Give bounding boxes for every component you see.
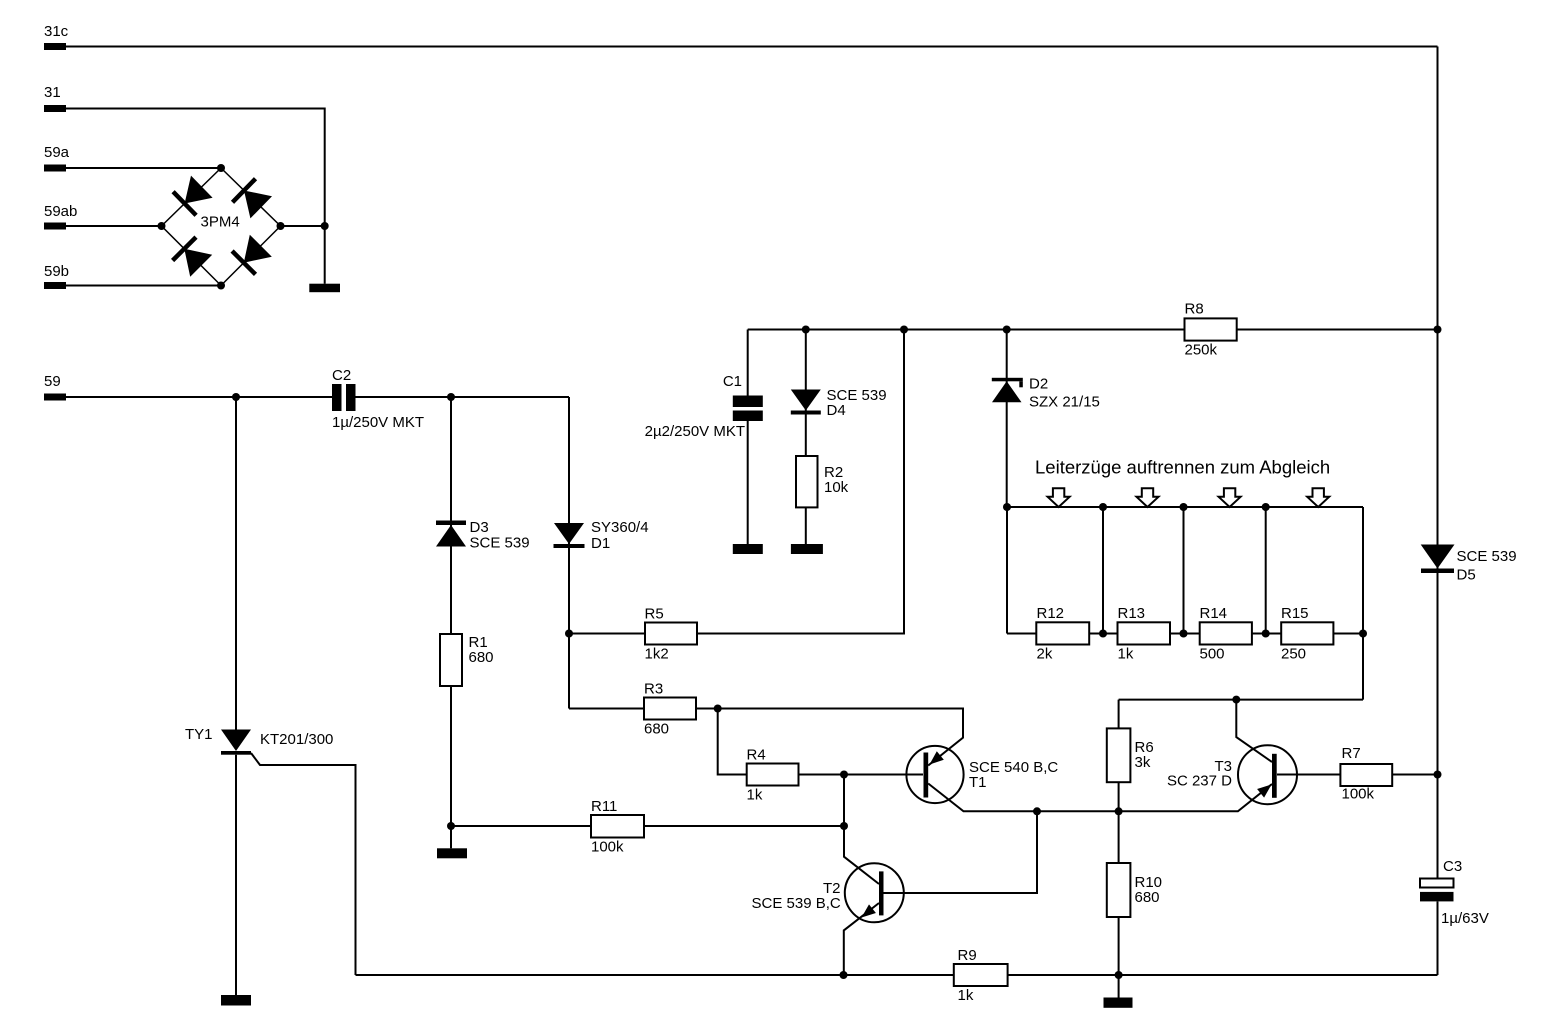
node bridge left (158, 222, 166, 230)
svg-text:R3: R3 (644, 681, 663, 698)
diode D5 (1421, 545, 1455, 574)
resistor R5 (645, 623, 697, 645)
wire R11 horizontal (451, 825, 844, 827)
wire TY1 cathode to ground (235, 755, 237, 995)
ground (R2) (791, 544, 823, 554)
node bridge bottom (217, 282, 225, 290)
wire trim stub 1 (1102, 507, 1104, 634)
wire net 59b to bridge (66, 285, 221, 287)
ground (R1/R11 node) (437, 848, 467, 858)
svg-text:R14: R14 (1200, 605, 1228, 622)
node R11/T2 (840, 822, 848, 830)
node R7/right rail (1434, 771, 1442, 779)
diode D1 (554, 523, 585, 548)
wire bottom net through R9 to C3 (356, 974, 1438, 976)
bridge diode top-left (173, 176, 213, 216)
svg-text:1µ/63V: 1µ/63V (1441, 910, 1489, 927)
svg-text:TY1: TY1 (185, 726, 213, 743)
transistor T3 emitter arrow (1257, 785, 1271, 798)
wire C1 bottom to ground (747, 421, 749, 544)
svg-text:250k: 250k (1185, 342, 1218, 359)
resistor R2 (796, 456, 818, 507)
svg-text:100k: 100k (591, 839, 624, 856)
bridge diode bottom-right (232, 235, 272, 275)
svg-text:D1: D1 (591, 535, 610, 552)
node R15 right (1359, 630, 1367, 638)
svg-text:SZX 21/15: SZX 21/15 (1029, 394, 1100, 411)
svg-text:1k2: 1k2 (645, 646, 669, 663)
wire R4 branch to T1 base (718, 709, 923, 775)
terminal 59a (44, 165, 66, 172)
wire net 59 right of C2 (356, 396, 570, 398)
svg-text:T1: T1 (969, 774, 987, 791)
resistor R7 (1340, 764, 1392, 786)
node D2/top rail (1003, 326, 1011, 334)
node R5 riser/top rail (900, 326, 908, 334)
svg-text:R4: R4 (747, 747, 766, 764)
node T1 collector (1033, 807, 1041, 815)
node R1/R11 (447, 822, 455, 830)
wire trim network right vertical (1362, 507, 1364, 700)
wire net 31 to ground (66, 109, 325, 284)
wire T3 collector riser (1236, 700, 1272, 762)
svg-text:1µ/250V MKT: 1µ/250V MKT (332, 414, 424, 431)
wire right rail (C3 bottom to bottom net) (1437, 902, 1439, 976)
wire trim network left vertical (1006, 507, 1008, 634)
wire R6 R10 vertical branch (1118, 700, 1120, 975)
transistor T1 emitter arrow (930, 751, 944, 764)
svg-text:31c: 31c (44, 23, 69, 40)
svg-text:SC 237 D: SC 237 D (1167, 773, 1232, 790)
svg-text:C2: C2 (332, 367, 351, 384)
wire net 59ab to bridge (66, 225, 162, 227)
svg-text:SCE 539: SCE 539 (1457, 548, 1517, 565)
svg-text:R11: R11 (591, 798, 617, 815)
wire right rail (31c down to C3 top) (1437, 47, 1439, 879)
svg-text:D4: D4 (827, 402, 846, 419)
node R12/R13 (1099, 630, 1107, 638)
svg-text:250: 250 (1281, 646, 1306, 663)
svg-text:C1: C1 (723, 373, 742, 390)
terminal 59ab (44, 223, 66, 230)
wire D2 branch (1006, 330, 1008, 508)
terminal 31 (44, 105, 66, 112)
resistor R9 (954, 964, 1008, 986)
wire trim resistor row R12-R15 (1007, 633, 1363, 635)
wire net 59 left of C2 (66, 396, 332, 398)
svg-text:D3: D3 (470, 519, 489, 536)
ground (bottom net) (1104, 998, 1133, 1008)
terminal 59 (44, 394, 66, 401)
node R8/right rail (1434, 326, 1442, 334)
resistor R3 (644, 698, 696, 720)
node bridge right (277, 222, 285, 230)
svg-text:10k: 10k (824, 479, 849, 496)
resistor R10 (1107, 863, 1131, 917)
node D1/R5 (565, 630, 573, 638)
wire R3 to T1 emitter (569, 709, 963, 766)
capacitor C1 plates (733, 396, 763, 422)
svg-text:2µ2/250V MKT: 2µ2/250V MKT (645, 423, 745, 440)
resistor R4 (747, 764, 799, 786)
svg-text:3PM4: 3PM4 (201, 214, 240, 231)
wire TY1 anode branch (235, 397, 237, 730)
wire R4 node down to T2 collector (844, 775, 879, 885)
wire R5 to top rail riser (569, 330, 904, 634)
svg-text:680: 680 (1135, 889, 1160, 906)
node T2 emitter/bottom (840, 971, 848, 979)
trim cut arrow 3 (1219, 488, 1241, 507)
trim cut arrow 1 (1048, 488, 1070, 507)
trim cut arrow 2 (1137, 488, 1159, 507)
transistor T2 emitter arrow (862, 904, 876, 917)
thyristor TY1 (221, 730, 251, 755)
capacitor C3 top plate (1420, 879, 1454, 888)
svg-text:R13: R13 (1118, 605, 1146, 622)
node R6/R10 (1115, 807, 1123, 815)
node R13/R14 (1180, 630, 1188, 638)
capacitor C3 bottom plate (1420, 892, 1454, 902)
bridge diode bottom-left (173, 237, 213, 277)
wire trim stub 3 (1265, 507, 1267, 634)
svg-text:59a: 59a (44, 144, 70, 161)
ground (net 31 / bridge) (309, 284, 340, 293)
resistor R1 (440, 634, 462, 686)
resistor R11 (591, 815, 644, 838)
resistor R6 (1107, 728, 1131, 782)
svg-text:SY360/4: SY360/4 (591, 519, 649, 536)
wire T2 emitter to bottom net (844, 903, 879, 975)
svg-text:31: 31 (44, 84, 61, 101)
svg-text:1k: 1k (1118, 646, 1134, 663)
svg-text:680: 680 (644, 721, 669, 738)
transistor T2 circle (845, 863, 904, 922)
svg-text:2k: 2k (1037, 646, 1053, 663)
svg-text:R7: R7 (1342, 745, 1361, 762)
node R3/R4 (714, 705, 722, 713)
transistor T3 base bar (1272, 754, 1277, 798)
node D2/trim line (1003, 503, 1011, 511)
wire D1 branch vertical (568, 397, 570, 709)
svg-text:100k: 100k (1342, 786, 1375, 803)
svg-text:KT201/300: KT201/300 (260, 731, 333, 748)
terminal 59b (44, 282, 66, 289)
wire TY1 gate to bottom net (251, 753, 356, 975)
svg-text:R8: R8 (1185, 301, 1204, 318)
svg-text:680: 680 (469, 649, 494, 666)
wire bottom ground stub (1118, 975, 1120, 998)
transistor T1 base bar (924, 753, 929, 798)
wire top rail through R8 (748, 329, 1438, 331)
trim cut arrow 4 (1307, 488, 1329, 507)
wire net 59a to bridge (66, 167, 221, 169)
wire T1 collector to T3 emitter rail (928, 784, 1272, 812)
capacitor C2 plates (332, 384, 356, 411)
transistor T2 base bar (879, 871, 884, 915)
resistor R15 (1281, 622, 1333, 644)
wire trim network top line (1007, 506, 1363, 508)
resistor R12 (1036, 622, 1089, 644)
svg-text:1k: 1k (958, 987, 974, 1004)
diode D3 (436, 521, 466, 547)
ground (C1) (733, 544, 763, 554)
node R4/T2 (840, 771, 848, 779)
node trim top 1 (1099, 503, 1107, 511)
transistor T1 circle (906, 746, 963, 803)
node D4/top rail (802, 326, 810, 334)
node T3 collector (1232, 696, 1240, 704)
node 59/D3 (447, 393, 455, 401)
transistor T3 circle (1238, 745, 1297, 804)
svg-text:59b: 59b (44, 263, 69, 280)
svg-text:59ab: 59ab (44, 203, 77, 220)
zener diode D2 (992, 378, 1023, 403)
diode D4 (791, 390, 821, 415)
svg-text:SCE 539: SCE 539 (470, 535, 530, 552)
wire bridge output to net 31 (281, 225, 325, 227)
node 59/TY1 (232, 393, 240, 401)
wire R6 top line (1119, 699, 1363, 701)
node trim top 2 (1180, 503, 1188, 511)
svg-text:SCE 539 B,C: SCE 539 B,C (752, 895, 841, 912)
svg-text:D2: D2 (1029, 376, 1048, 393)
resistor R13 (1118, 622, 1171, 644)
resistor R8 (1185, 318, 1237, 340)
bridge diode top-right (233, 179, 273, 219)
svg-text:R15: R15 (1281, 605, 1309, 622)
wire net 31c top horizontal (66, 46, 1438, 48)
bridge rectifier 3PM4 diamond (162, 168, 281, 286)
svg-text:D5: D5 (1457, 567, 1476, 584)
wire D3 R1 branch (450, 397, 452, 826)
svg-text:Leiterzüge auftrennen zum Abgl: Leiterzüge auftrennen zum Abgleich (1035, 457, 1330, 478)
ground (TY1 cathode) (221, 995, 251, 1006)
svg-text:R9: R9 (958, 947, 977, 964)
terminal 31c (44, 43, 66, 50)
wire T2 base to T1 collector node (884, 811, 1038, 893)
wire R1 to ground stub (450, 826, 452, 848)
node R10/bottom (1115, 971, 1123, 979)
svg-text:3k: 3k (1135, 754, 1151, 771)
wire C1 top stub (747, 330, 749, 396)
node trim top 3 (1262, 503, 1270, 511)
node R14/R15 (1262, 630, 1270, 638)
wire trim stub 2 (1183, 507, 1185, 634)
wire T3 base through R7 to right rail (1277, 774, 1438, 776)
svg-text:1k: 1k (747, 787, 763, 804)
resistor R14 (1200, 622, 1252, 644)
svg-text:R5: R5 (645, 606, 664, 623)
node net31 junction (321, 222, 329, 230)
svg-text:R12: R12 (1037, 605, 1065, 622)
svg-text:59: 59 (44, 373, 61, 390)
svg-text:500: 500 (1200, 646, 1225, 663)
wire D4 R2 branch to ground (805, 330, 807, 545)
svg-text:C3: C3 (1443, 858, 1462, 875)
node bridge top (217, 164, 225, 172)
